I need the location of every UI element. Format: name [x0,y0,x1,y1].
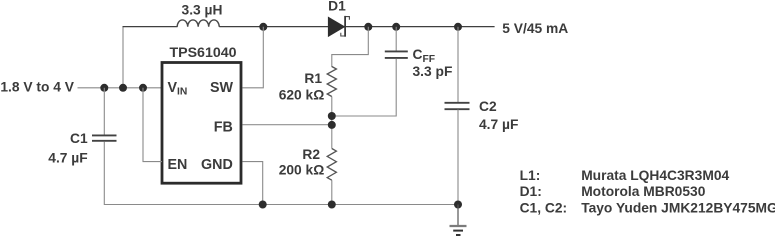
svg-text:R1: R1 [304,71,322,86]
svg-text:GND: GND [201,157,233,173]
svg-text:1.8 V to 4 V: 1.8 V to 4 V [0,80,74,95]
reference list part numbers column [581,168,775,216]
svg-text:4.7 µF: 4.7 µF [479,117,518,132]
wire R2 bottom to ground rail [331,180,333,205]
wire SW pin to top rail [243,27,264,88]
junction R1/CFF node [328,112,336,120]
junction R1 branch on top rail [364,23,372,31]
capacitor C1 [92,135,117,140]
svg-text:620 kΩ: 620 kΩ [279,87,325,102]
junction R2 on rail [328,201,336,209]
junction C2 branch on top rail [454,23,462,31]
svg-text:TPS61040: TPS61040 [169,45,236,61]
svg-text:C2: C2 [479,99,497,114]
junction GND on rail [259,201,267,209]
junction FB node [328,121,336,129]
svg-text:CFF: CFF [413,47,436,65]
wire C1 bottom to ground rail [103,142,105,206]
svg-text:5 V/45 mA: 5 V/45 mA [502,21,568,36]
ground [450,226,467,235]
svg-text:EN: EN [168,157,188,173]
IC U1 TPS61040 [162,63,241,184]
capacitor CFF [385,27,408,58]
inductor L1 [177,20,219,27]
reference list refdes column [520,168,568,216]
svg-text:D1: D1 [328,0,346,13]
svg-text:200 kΩ: 200 kΩ [279,163,325,178]
wire GND pin to ground rail [243,162,263,205]
wire R1 bottom through junctions to R2 top [331,97,333,149]
svg-text:4.7 µF: 4.7 µF [48,150,87,165]
junction input to top rail [119,84,127,92]
resistor R1 [327,67,336,97]
wire down to ground symbol [457,205,459,226]
wire input to VIN pin [78,87,162,89]
wire up-left from input row to top rail [122,27,124,88]
wire FB pin to divider [243,124,332,126]
capacitor C2 [445,103,470,109]
wire C2 branch from top rail [457,27,459,102]
junction C2/ground on rail [454,201,462,209]
svg-text:R2: R2 [302,147,320,162]
svg-text:C1: C1 [70,131,88,146]
wire input junction down to C1 top [103,88,105,135]
wire top rail left segment to inductor [123,26,178,28]
wire ground rail [104,204,458,206]
junction SW branch on top rail [259,23,267,31]
svg-text:Murata LQH4C3R3M04: Murata LQH4C3R3M04 [581,168,729,183]
svg-text:3.3 pF: 3.3 pF [413,64,453,79]
svg-text:FB: FB [214,120,233,136]
wire CFF bottom to feedback node [332,59,396,116]
svg-text:Tayo Yuden JMK212BY475MG: Tayo Yuden JMK212BY475MG [581,200,775,215]
wire diode cathode to output [346,26,495,28]
svg-text:Motorola MBR0530: Motorola MBR0530 [581,184,706,199]
wire C2 bottom to ground rail [457,110,459,205]
junction CFF branch on top rail [392,23,400,31]
junction input to C1 [100,84,108,92]
resistor R2 [327,149,336,181]
svg-text:D1:: D1: [520,184,542,199]
svg-text:C1, C2:: C1, C2: [520,200,568,215]
wire EN pin [143,88,162,162]
junction input to EN [139,84,147,92]
svg-text:3.3 µH: 3.3 µH [182,2,223,17]
svg-text:SW: SW [210,80,234,96]
diode D1 [328,16,349,37]
svg-text:L1:: L1: [520,168,541,183]
wire R1 branch from top rail junction [332,27,369,67]
wire inductor to diode anode [219,26,328,28]
svg-text:VIN: VIN [168,80,188,98]
